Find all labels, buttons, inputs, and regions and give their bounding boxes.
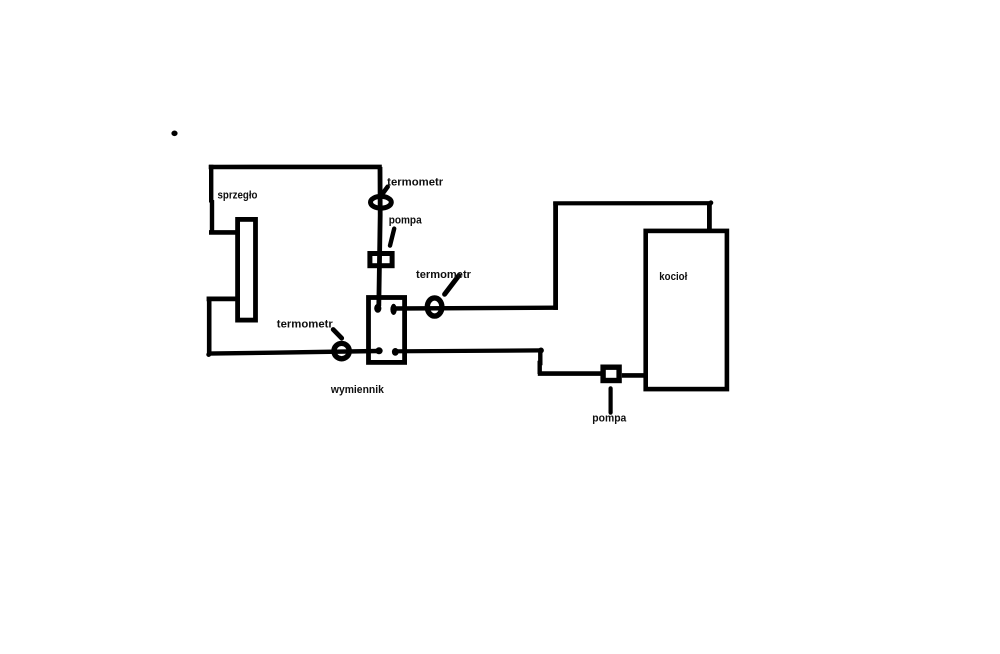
sprzeglo (hydraulic coupling) body xyxy=(238,219,256,320)
wire: upper stub into sprzeglo xyxy=(209,230,239,235)
label termometr T2 xyxy=(277,318,334,330)
wire: main riser from top pipe down to wymiennik xyxy=(379,167,380,306)
label sprzeglo xyxy=(218,190,258,202)
wire: lower stub into sprzeglo xyxy=(207,296,238,301)
wire: wymiennik bottom-right pipe xyxy=(395,348,542,353)
svg-text:termometr: termometr xyxy=(387,176,444,188)
kociol (boiler) body xyxy=(646,231,727,389)
corner nub xyxy=(709,200,714,205)
wire: lower-left vertical pipe xyxy=(207,297,212,356)
wire: pompa P2 to kociol xyxy=(622,373,646,378)
svg-text:termometr: termometr xyxy=(277,318,334,330)
label wymiennik xyxy=(330,384,385,396)
pompa P1 body (on riser) xyxy=(370,254,392,266)
termometr T2 symbol (on bottom-left pipe) xyxy=(334,343,349,358)
wire: wymiennik top-right pipe to riser xyxy=(394,306,558,311)
wire: pipe to pompa P2 xyxy=(538,371,601,376)
wire: drop into kociol top xyxy=(707,203,712,232)
wymiennik port dot bottom-right xyxy=(392,348,399,356)
label kociol xyxy=(659,271,687,283)
svg-text:pompa: pompa xyxy=(389,214,423,226)
svg-text:pompa: pompa xyxy=(592,413,627,425)
termometr T3 symbol (on top-right pipe) xyxy=(427,298,442,316)
wire: short drop xyxy=(538,350,543,374)
wymiennik (heat exchanger) body xyxy=(369,298,405,363)
wire: top pipe to kociol xyxy=(553,201,712,205)
pompa P1 pointer tick xyxy=(390,229,394,246)
wire: bottom pipe to wymiennik xyxy=(207,351,378,354)
termometr T3 pointer tick xyxy=(445,276,459,295)
pompa P2 body xyxy=(603,367,619,380)
corner nub bottom-left xyxy=(206,352,211,357)
termometr T2 pointer tick xyxy=(333,330,342,339)
pompa P2 pointer tick xyxy=(608,388,612,412)
wymiennik port dot top-left xyxy=(374,304,381,313)
termometr T1 pointer tick xyxy=(383,187,388,194)
junction dot at pipe end xyxy=(538,348,544,354)
svg-text:wymiennik: wymiennik xyxy=(330,384,385,396)
wymiennik port dot top-right xyxy=(390,304,396,315)
svg-text:termometr: termometr xyxy=(416,269,472,281)
label pompa P2 xyxy=(592,413,627,425)
wire: right riser up xyxy=(553,202,558,310)
stray dot node xyxy=(171,131,177,137)
wymiennik port dot bottom-left xyxy=(375,347,382,354)
wire: upper-left vertical pipe xyxy=(209,165,214,235)
label termometr T1 xyxy=(387,176,444,188)
wire: top pipe of sprzeglo loop xyxy=(209,165,382,170)
svg-text:sprzegło: sprzegło xyxy=(218,190,258,202)
label pompa P1 xyxy=(389,214,423,226)
svg-text:kocioł: kocioł xyxy=(659,271,687,283)
label termometr T3 xyxy=(416,269,472,281)
termometr T1 symbol (on riser) xyxy=(371,196,392,208)
